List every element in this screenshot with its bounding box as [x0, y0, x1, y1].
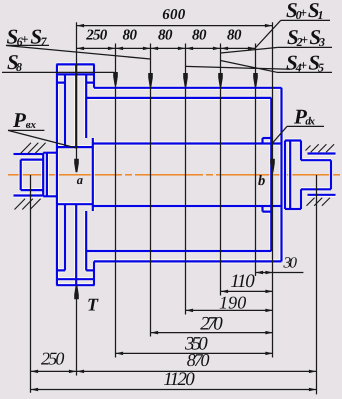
- svg-text:600: 600: [162, 7, 186, 23]
- svg-text:80: 80: [123, 28, 138, 44]
- svg-text:30: 30: [283, 255, 298, 272]
- svg-text:80: 80: [192, 28, 207, 44]
- svg-text:a: a: [77, 173, 83, 187]
- svg-text:870: 870: [187, 350, 210, 370]
- svg-text:T: T: [87, 295, 99, 315]
- svg-text:S2+ S3: S2+ S3: [287, 25, 325, 49]
- svg-text:250: 250: [41, 349, 64, 369]
- svg-text:S6+ S7: S6+ S7: [7, 24, 48, 48]
- svg-text:S4+ S5: S4+ S5: [286, 50, 324, 74]
- svg-text:250: 250: [85, 28, 108, 44]
- svg-text:80: 80: [158, 28, 173, 44]
- svg-text:110: 110: [230, 271, 255, 292]
- svg-text:190: 190: [219, 292, 246, 312]
- svg-text:270: 270: [200, 313, 223, 334]
- svg-text:80: 80: [227, 28, 242, 44]
- svg-text:S0+ S1: S0+ S1: [286, 0, 324, 22]
- svg-text:1120: 1120: [163, 369, 195, 390]
- svg-text:b: b: [258, 173, 265, 189]
